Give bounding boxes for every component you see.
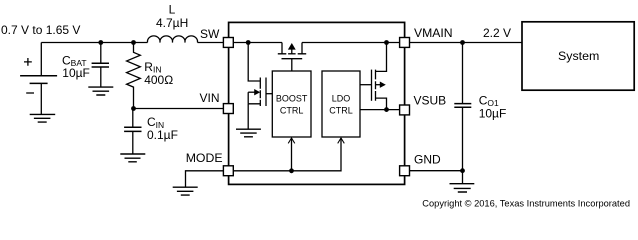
pin VSUB [400, 105, 410, 115]
node junction dot RIN/top rail [131, 40, 136, 45]
svg-text:0.1µF: 0.1µF [147, 128, 178, 142]
capacitor CIN plates [124, 127, 141, 131]
arrow into BOOST CTRL [288, 138, 295, 143]
P2 channel segments [375, 70, 377, 101]
ground (GND/CO1) [450, 184, 475, 192]
ground (Q1 source) [236, 129, 261, 137]
svg-text:BOOST: BOOST [276, 94, 308, 104]
P1 left terminal [278, 43, 287, 54]
transistor P1 rectifier FET [278, 43, 306, 72]
svg-text:GND: GND [414, 153, 441, 167]
ground (CBAT) [88, 87, 113, 95]
wire SW internal rail [234, 42, 283, 44]
inductor L coil [147, 36, 197, 43]
P2 gate line [371, 70, 373, 101]
svg-text:Copyright © 2016, Texas Instru: Copyright © 2016, Texas Instruments Inco… [422, 198, 630, 208]
pin MODE [223, 166, 233, 176]
wire VSUB internal [360, 109, 400, 111]
svg-text:2.2 V: 2.2 V [483, 26, 511, 40]
pin GND [400, 166, 410, 176]
ground (battery) [30, 114, 56, 122]
svg-text:0.7 V to 1.65 V: 0.7 V to 1.65 V [1, 23, 80, 37]
svg-text:SW: SW [200, 27, 220, 41]
svg-text:10µF: 10µF [479, 106, 507, 120]
wire MODE to ground [186, 171, 224, 187]
node junction dot GND/CO1 [460, 168, 465, 173]
wire CO1 branch [462, 43, 464, 171]
battery minus sign [26, 92, 34, 94]
battery CELL plates [20, 76, 57, 84]
ground (CIN) [120, 154, 145, 162]
svg-text:VMAIN: VMAIN [414, 26, 453, 40]
P1 body segment [288, 53, 296, 55]
wire VMAIN external to System [410, 42, 523, 44]
node junction dot P2 source / VSUB [384, 107, 389, 112]
wire top rail from battery to SW pin [41, 43, 223, 76]
pin VIN [223, 104, 233, 114]
wire BOOST CTRL feed [291, 138, 293, 171]
P2 gate wire from LDO CTRL [360, 84, 372, 86]
Q1 source stub [248, 104, 260, 129]
resistor RIN zigzag [127, 43, 141, 109]
capacitor CO1 plates [454, 104, 471, 108]
Q1 gate line [265, 78, 267, 107]
arrow into LDO CTRL [338, 138, 345, 143]
svg-text:CTRL: CTRL [280, 106, 304, 116]
IC outline U1 [229, 22, 405, 184]
svg-text:System: System [558, 49, 599, 63]
P1 body arrow [291, 49, 293, 54]
battery plus sign [24, 58, 32, 66]
svg-text:VIN: VIN [200, 91, 220, 105]
BOOST CTRL block [272, 71, 311, 137]
wire CBAT branch [100, 43, 102, 88]
wire MODE internal rail [234, 138, 342, 171]
svg-text:CTRL: CTRL [329, 106, 353, 116]
svg-text:LDO: LDO [332, 94, 351, 104]
capacitor CBAT plates [92, 63, 109, 67]
wire CIN branch [132, 109, 134, 155]
LDO CTRL block [322, 71, 360, 137]
wire GND external [410, 171, 463, 184]
node junction dot Q1 drain tap [246, 40, 251, 45]
node junction dot CO1 tap [460, 40, 465, 45]
pin VMAIN [400, 38, 410, 48]
wire VIN rail [134, 108, 224, 110]
node junction dot VIN/RIN bottom [131, 106, 136, 111]
wire VMAIN internal rail [302, 42, 400, 44]
P1 right terminal [298, 43, 307, 54]
ground (MODE) [173, 187, 198, 195]
node junction dot CBAT/top rail [98, 40, 103, 45]
node junction dot P2 drain tap [384, 40, 389, 45]
Q1 channel segments [259, 78, 261, 107]
System block [522, 22, 634, 90]
P1 gate wire to BOOST CTRL [291, 59, 293, 71]
svg-text:4.7µH: 4.7µH [156, 16, 188, 30]
P2 body arrow [376, 84, 381, 86]
svg-text:L: L [169, 3, 176, 17]
Q1 body/source tie [247, 92, 249, 104]
transistor Q1 low-side FET [248, 43, 272, 130]
svg-text:VSUB: VSUB [414, 94, 447, 108]
P1 gate line [282, 58, 303, 60]
svg-text:400Ω: 400Ω [144, 73, 173, 87]
Q1 drain wire [248, 43, 260, 82]
svg-text:10µF: 10µF [62, 66, 90, 80]
Q1 body arrow [248, 91, 255, 93]
pin SW [223, 38, 233, 48]
transistor P2 LDO pass FET [360, 43, 387, 110]
wire battery bottom to ground [40, 83, 42, 114]
svg-text:MODE: MODE [186, 151, 223, 165]
P2 drain wire to VMAIN [376, 43, 387, 72]
P2 source wire to VSUB [376, 98, 387, 110]
node junction dot BOOST arrow tap [289, 168, 294, 173]
Q1 gate stub to BOOST CTRL [266, 93, 273, 95]
